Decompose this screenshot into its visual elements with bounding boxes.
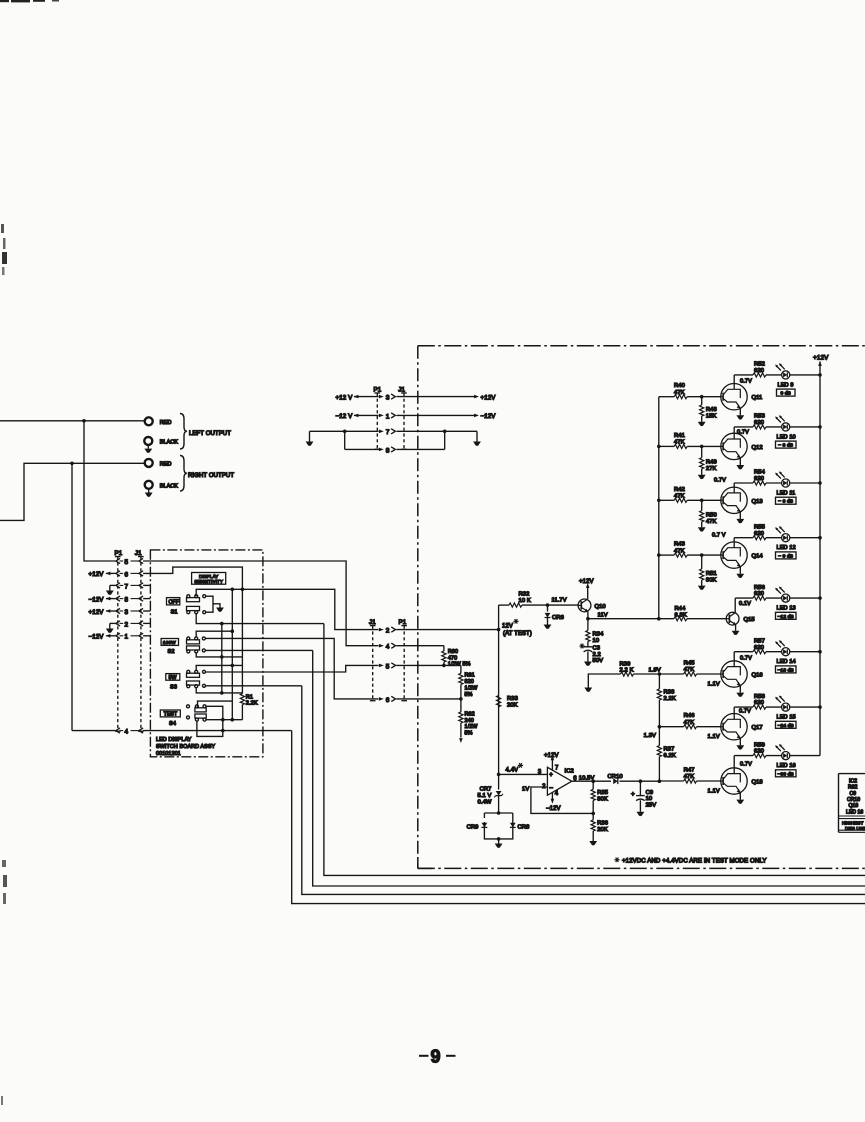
- node 1.3V: [658, 725, 662, 729]
- node: [591, 779, 595, 783]
- svg-text:+12 V: +12 V: [336, 394, 354, 401]
- svg-text:R54: R54: [754, 470, 766, 476]
- svg-text:R49: R49: [706, 460, 717, 466]
- +12V supply Q10: [587, 588, 589, 600]
- svg-text:−24 dB: −24 dB: [778, 723, 794, 729]
- ground: [106, 629, 114, 633]
- wire: R1 feed bus: [241, 589, 243, 693]
- svg-text:Q18: Q18: [752, 780, 763, 786]
- switch S1 label OFF: [167, 598, 180, 605]
- node: [231, 629, 235, 633]
- node 1.9V: [658, 672, 662, 676]
- svg-text:1.3V: 1.3V: [644, 733, 656, 739]
- svg-text:LED 9: LED 9: [778, 382, 794, 388]
- jack BLACK left output: [144, 437, 152, 445]
- resistor R32: [499, 604, 509, 606]
- wire: S3 lower contact to south: [206, 685, 302, 687]
- wire: J1-4 through board to south: [143, 730, 292, 732]
- node: [221, 729, 225, 733]
- node: [700, 499, 704, 503]
- svg-text:7: 7: [555, 765, 559, 771]
- wire: to P1 pin4: [71, 463, 73, 730]
- wire: S4 bottom drop: [197, 721, 223, 736]
- ground: [147, 445, 149, 449]
- wire: right output feed: [0, 463, 144, 520]
- svg-text:+12V: +12V: [89, 609, 105, 616]
- node: [700, 445, 704, 449]
- svg-text:47K: 47K: [674, 494, 685, 500]
- ground: [736, 465, 744, 469]
- svg-text:2.2 K: 2.2 K: [620, 668, 634, 674]
- node: [220, 655, 224, 659]
- svg-text:+12V: +12V: [813, 355, 829, 362]
- svg-text:15K: 15K: [706, 413, 717, 419]
- svg-text:4: 4: [386, 644, 390, 651]
- svg-text:5%: 5%: [465, 731, 473, 737]
- svg-text:25V: 25V: [646, 803, 657, 809]
- transistor Q11: [721, 384, 747, 410]
- svg-text:+12V: +12V: [544, 753, 559, 759]
- svg-text:LED 11: LED 11: [777, 491, 796, 497]
- wire pin8 stub: [143, 598, 150, 600]
- svg-text:CR10: CR10: [847, 797, 860, 803]
- svg-text:5: 5: [386, 663, 390, 670]
- svg-text:R61: R61: [465, 673, 475, 679]
- svg-text:R46: R46: [684, 713, 695, 719]
- resistor R37: [658, 727, 660, 746]
- transistor Q17: [721, 714, 747, 740]
- svg-text:LED 16: LED 16: [846, 809, 863, 815]
- led LED 16: [775, 744, 790, 760]
- svg-text:R53: R53: [754, 414, 765, 420]
- svg-text:R62: R62: [848, 785, 858, 791]
- ground: [106, 591, 114, 595]
- switch S3 label 5W: [166, 674, 180, 681]
- diode CR8: [510, 823, 516, 828]
- svg-text:Q11: Q11: [752, 395, 763, 401]
- transistor Q18: [721, 768, 747, 794]
- svg-text:Q10: Q10: [595, 604, 606, 610]
- svg-text:47K: 47K: [684, 720, 695, 726]
- ground: [736, 745, 744, 749]
- ground: [148, 489, 150, 493]
- svg-text:P1: P1: [115, 550, 123, 557]
- svg-text:Q13: Q13: [752, 499, 763, 505]
- resistor R45: [659, 673, 683, 675]
- svg-text:Q16: Q16: [752, 673, 763, 679]
- svg-text:R55: R55: [754, 524, 765, 530]
- svg-text:27K: 27K: [706, 466, 717, 472]
- wire: output row: [593, 780, 611, 782]
- svg-text:−12V: −12V: [89, 634, 105, 641]
- svg-text:SENSITIVITY: SENSITIVITY: [194, 579, 223, 584]
- svg-text:LED 16: LED 16: [777, 763, 796, 769]
- svg-text:− 6 dB: − 6 dB: [778, 499, 793, 505]
- resistor R48: [701, 397, 703, 405]
- assembly border top: [418, 345, 865, 347]
- resistor R58 row LED 15: [734, 706, 753, 708]
- node: [497, 837, 501, 841]
- wire: 11V row: [588, 618, 674, 620]
- ground: [698, 475, 706, 479]
- transistor Q13: [721, 487, 747, 513]
- brace left output: [180, 414, 187, 450]
- svg-text:−18 dB: −18 dB: [778, 667, 794, 673]
- svg-text:6.8K: 6.8K: [675, 612, 687, 618]
- svg-text:−12V: −12V: [546, 806, 561, 812]
- wire: S3 common to bus: [196, 665, 242, 670]
- wire: base bus: [658, 397, 660, 619]
- svg-text:R32: R32: [519, 592, 530, 598]
- node: [657, 617, 661, 621]
- wire: S2 lower contact to south: [205, 649, 312, 651]
- wire: pin8 to pin7 tie right: [444, 431, 446, 449]
- svg-text:R36: R36: [597, 821, 608, 827]
- svg-text:2: 2: [386, 628, 390, 635]
- svg-text:2: 2: [125, 621, 129, 628]
- svg-text:20K: 20K: [507, 703, 518, 709]
- svg-text:+: +: [549, 773, 553, 779]
- resistor R41: [659, 445, 674, 447]
- svg-text:Q15: Q15: [744, 617, 755, 623]
- wire: S1 line south: [324, 624, 865, 876]
- resistor R61: [460, 665, 462, 673]
- svg-text:LED 12: LED 12: [777, 545, 796, 551]
- node: [221, 718, 225, 722]
- svg-text:7: 7: [386, 429, 390, 436]
- wire: S4 common to bus: [198, 701, 233, 708]
- wire: [344, 431, 346, 449]
- svg-text:620: 620: [754, 368, 764, 374]
- svg-text:RIGHT OUTPUT: RIGHT OUTPUT: [188, 473, 234, 479]
- wire: S3 line south: [302, 686, 865, 895]
- pin 7 row ground: [110, 584, 116, 586]
- resistor R1: [240, 694, 244, 705]
- wire pin7 stub: [143, 584, 150, 586]
- node: [700, 553, 704, 557]
- wire: S4 lower contact to R1: [206, 719, 242, 721]
- svg-text:0.7V: 0.7V: [740, 655, 752, 661]
- led LED 15: [775, 696, 790, 712]
- wire: to P1 pin5: [84, 421, 115, 561]
- resistor R43: [659, 554, 674, 556]
- svg-text:47K: 47K: [684, 774, 695, 780]
- led LED 11: [775, 471, 790, 487]
- svg-text:S3: S3: [170, 684, 177, 690]
- node: [220, 622, 224, 626]
- svg-text:5: 5: [125, 559, 129, 566]
- svg-text:− 3 dB: − 3 dB: [778, 443, 793, 449]
- svg-text:HIGHEST: HIGHEST: [842, 821, 864, 826]
- svg-text:470: 470: [448, 655, 457, 661]
- svg-text:S1: S1: [171, 610, 178, 616]
- node 12V (AT TEST): [497, 628, 501, 632]
- resistor R39: [588, 674, 620, 688]
- ground: [736, 800, 744, 804]
- svg-text:+12V: +12V: [579, 579, 594, 585]
- wire: S1 off contacts to ground: [206, 596, 220, 607]
- svg-text:6: 6: [125, 571, 129, 578]
- svg-text:RED: RED: [160, 420, 172, 426]
- connector J1 (second): [372, 626, 374, 701]
- brace right output: [180, 456, 187, 492]
- svg-text:−12V: −12V: [481, 413, 497, 420]
- svg-text:2.2K: 2.2K: [664, 696, 676, 702]
- wire: commons bus: [231, 589, 233, 719]
- svg-text:820: 820: [465, 679, 474, 685]
- svg-text:620: 620: [754, 531, 764, 537]
- svg-text:0.4W: 0.4W: [478, 799, 492, 805]
- svg-text:R44: R44: [675, 606, 687, 612]
- svg-text:5%: 5%: [465, 692, 473, 698]
- pin 2 row ground: [110, 622, 116, 624]
- node: [459, 697, 463, 701]
- ground: [544, 625, 552, 629]
- svg-text:IC2: IC2: [565, 768, 574, 774]
- led LED 9: [775, 363, 790, 379]
- arrow down: [459, 738, 463, 743]
- ground: [473, 442, 481, 446]
- node: [546, 603, 550, 607]
- ground: [306, 442, 314, 446]
- svg-text:Q12: Q12: [752, 445, 763, 451]
- svg-text:1: 1: [125, 634, 129, 641]
- resistor R33: [497, 696, 501, 707]
- node 11V: [586, 617, 590, 621]
- svg-text:1.1V: 1.1V: [708, 734, 720, 740]
- resistor R47: [659, 780, 683, 782]
- connector J1 (top): [403, 393, 405, 450]
- pin 7 +12V: [551, 760, 553, 771]
- pin 7 symbols: [379, 430, 384, 434]
- wire: Q10 emitter to 11V node: [587, 611, 589, 618]
- wire pin1 stub: [143, 635, 150, 637]
- svg-text:620: 620: [754, 645, 764, 651]
- svg-text:C3: C3: [593, 646, 601, 652]
- test mode note: [614, 858, 619, 863]
- svg-text:IC2: IC2: [849, 778, 857, 784]
- pin 5 row: [116, 558, 120, 563]
- pin 6: [379, 697, 384, 701]
- wire: S1 common rail: [196, 589, 378, 629]
- svg-text:BLACK: BLACK: [160, 483, 178, 489]
- ground: [637, 812, 645, 816]
- svg-text:1/2W: 1/2W: [465, 724, 479, 730]
- svg-text:R43: R43: [674, 542, 685, 548]
- pin 4 row: [72, 730, 115, 732]
- svg-text:Q18: Q18: [849, 803, 859, 809]
- resistor R59 row LED 16: [734, 755, 753, 757]
- pin 7 row ground wire left: [310, 430, 379, 432]
- switch S1: [187, 598, 200, 602]
- svg-text:47K: 47K: [674, 548, 685, 554]
- svg-text:LED 15: LED 15: [777, 715, 796, 721]
- ground: [498, 839, 500, 844]
- svg-text:C9: C9: [646, 790, 654, 796]
- wire: S3 bottom tie: [196, 688, 242, 693]
- svg-text:CR6: CR6: [552, 615, 564, 621]
- jack RED right output: [145, 459, 153, 467]
- svg-text:7: 7: [125, 583, 129, 590]
- svg-text:J1: J1: [135, 550, 142, 557]
- pin 2: [379, 628, 384, 632]
- svg-text:12V: 12V: [502, 624, 513, 630]
- svg-text:8: 8: [125, 597, 129, 604]
- svg-text:0.7V: 0.7V: [740, 378, 752, 384]
- svg-text:47K: 47K: [674, 440, 685, 446]
- svg-text:− 9 dB: − 9 dB: [778, 553, 793, 559]
- svg-text:100W: 100W: [163, 640, 176, 646]
- svg-text:10: 10: [593, 638, 600, 644]
- svg-text:8: 8: [386, 447, 390, 454]
- resistor R49: [701, 446, 703, 457]
- zener CR7: [498, 774, 500, 789]
- svg-text:3: 3: [538, 769, 542, 775]
- svg-text:1.9V: 1.9V: [649, 667, 661, 673]
- resistor R38: [658, 674, 660, 689]
- switch S4 label TEST: [160, 710, 180, 717]
- assembly border bottom: [418, 867, 865, 869]
- svg-text:LED 13: LED 13: [777, 606, 796, 612]
- svg-text:R62: R62: [465, 711, 475, 717]
- svg-text:R33: R33: [507, 696, 518, 702]
- resistor R60: [443, 646, 445, 651]
- svg-text:4: 4: [125, 729, 129, 736]
- svg-text:R39: R39: [620, 661, 631, 667]
- ground: [736, 519, 744, 523]
- svg-text:240: 240: [465, 718, 474, 724]
- svg-text:1.1V: 1.1V: [708, 788, 720, 794]
- svg-text:CR9: CR9: [467, 825, 479, 831]
- jack RED left output: [145, 417, 153, 425]
- wire: R1 to S4: [241, 705, 243, 720]
- transistor Q14: [721, 542, 747, 568]
- svg-text:620: 620: [754, 420, 764, 426]
- switch S2 label 100W: [161, 639, 178, 646]
- svg-text:+12VDC AND +4.4VDC ARE IN TEST: +12VDC AND +4.4VDC ARE IN TEST MODE ONLY: [622, 858, 767, 865]
- svg-text:LED 10: LED 10: [777, 434, 796, 440]
- pin 4 -12V: [551, 792, 553, 799]
- svg-text:R34: R34: [593, 632, 605, 638]
- node: [220, 691, 224, 695]
- svg-text:00101201: 00101201: [156, 751, 181, 757]
- svg-text:J1: J1: [398, 386, 405, 393]
- pin 7 row right wire: [397, 430, 478, 432]
- wire: S1 bottom to south: [196, 614, 324, 624]
- svg-text:R45: R45: [684, 661, 695, 667]
- svg-text:11.7V: 11.7V: [552, 598, 567, 604]
- op-amp IC2: [547, 767, 571, 795]
- wire: bottoms tie bus: [221, 624, 223, 693]
- led LED 14: [775, 640, 790, 656]
- switch S3: [187, 673, 200, 677]
- pin 2 feedback loop: [531, 787, 593, 813]
- diode CR6: [547, 605, 549, 611]
- node 4.4V: [497, 773, 501, 777]
- connector J1 (switch board): [140, 557, 142, 732]
- svg-text:4: 4: [555, 791, 559, 797]
- led LED 10: [775, 415, 790, 431]
- svg-text:10: 10: [646, 796, 653, 802]
- wire: S2 line south: [313, 650, 865, 886]
- resistor R54 row LED 11: [734, 482, 753, 484]
- svg-text:R57: R57: [754, 638, 765, 644]
- svg-text:(AT TEST): (AT TEST): [503, 631, 532, 637]
- svg-text:620: 620: [754, 476, 764, 482]
- ground: [736, 693, 744, 697]
- switch S2: [187, 640, 200, 644]
- svg-text:0.7V: 0.7V: [737, 430, 749, 436]
- svg-text:80K: 80K: [597, 796, 608, 802]
- wire pin2 stub: [143, 622, 150, 624]
- resistor R51: [701, 555, 703, 569]
- svg-text:CR8: CR8: [518, 825, 530, 831]
- svg-text:Q17: Q17: [752, 725, 763, 731]
- svg-text:RED: RED: [160, 461, 172, 467]
- ground: [736, 574, 744, 578]
- ground: [216, 608, 224, 612]
- wire pin3 stub: [143, 610, 150, 612]
- resistor R34: [587, 619, 589, 631]
- svg-text:LED 14: LED 14: [777, 659, 796, 665]
- svg-text:−12 V: −12 V: [336, 413, 354, 420]
- svg-text:0.7 V: 0.7 V: [712, 532, 726, 538]
- wire: +12V J1-6 jog feed: [143, 567, 242, 589]
- svg-text:R52: R52: [754, 362, 765, 368]
- node: [82, 419, 86, 423]
- svg-text:R48: R48: [706, 407, 717, 413]
- diode CR9: [483, 818, 486, 822]
- svg-text:9: 9: [431, 1047, 441, 1067]
- resistor R46: [659, 726, 683, 728]
- svg-text:1/2W 5%: 1/2W 5%: [448, 662, 471, 668]
- svg-text:S4: S4: [169, 721, 176, 727]
- svg-text:R42: R42: [674, 487, 685, 493]
- assembly border left: [417, 346, 419, 869]
- svg-text:1/2W: 1/2W: [465, 685, 479, 691]
- svg-text:R58: R58: [754, 694, 765, 700]
- svg-text:1V: 1V: [522, 787, 529, 793]
- svg-text:R35: R35: [597, 790, 608, 796]
- svg-text:0.7V: 0.7V: [740, 762, 752, 768]
- wire: S2 common to bus: [196, 631, 232, 637]
- svg-text:47K: 47K: [684, 667, 695, 673]
- svg-text:6: 6: [386, 697, 390, 704]
- svg-text:6.2K: 6.2K: [664, 753, 676, 759]
- node: [497, 811, 501, 815]
- wire: left output feed: [0, 420, 144, 422]
- svg-text:2.2: 2.2: [593, 652, 601, 658]
- svg-text:0.7V: 0.7V: [714, 477, 726, 483]
- node: [700, 395, 704, 399]
- label DISPLAY SENSITIVITY: [192, 573, 226, 585]
- resistor R62: [460, 699, 462, 712]
- svg-text:R47: R47: [684, 768, 695, 774]
- wire: S4 contact loop: [206, 706, 223, 730]
- node: [231, 664, 235, 668]
- svg-text:2.2K: 2.2K: [246, 701, 258, 707]
- svg-text:50V: 50V: [593, 658, 604, 664]
- svg-text:R59: R59: [754, 742, 765, 748]
- wire: J1-5 through board to 2nd connector pin 4: [143, 561, 378, 646]
- wire: to Q10 base: [548, 604, 579, 606]
- jack BLACK right output: [145, 481, 153, 489]
- svg-text:CR10: CR10: [608, 774, 623, 780]
- pin 5: [379, 664, 384, 668]
- svg-text:0.7V: 0.7V: [739, 708, 751, 714]
- ground: [736, 415, 744, 419]
- node: [658, 779, 662, 783]
